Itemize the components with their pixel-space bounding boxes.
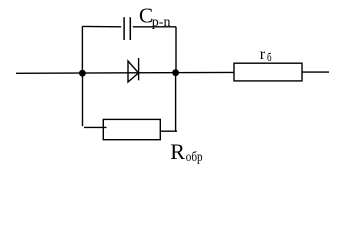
svg-text:R: R — [170, 139, 185, 164]
svg-text:p-n: p-n — [152, 15, 171, 30]
svg-text:обр: обр — [186, 150, 203, 165]
svg-text:б: б — [267, 50, 272, 64]
svg-text:r: r — [260, 46, 266, 63]
